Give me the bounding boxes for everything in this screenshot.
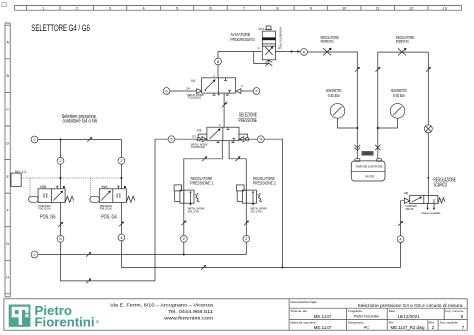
svg-text:H: H	[6, 276, 9, 280]
svg-text:3: 3	[109, 7, 111, 11]
svg-text:Selezione pressione G4 e G6 e: Selezione pressione G4 e G6 e circuito d…	[358, 303, 463, 308]
flow tick right column 2	[376, 67, 381, 72]
svg-text:F08.10 1M: F08.10 1M	[100, 208, 112, 211]
svg-text:F08.10 1M: F08.10 1M	[39, 208, 51, 211]
junction on avviatore output	[290, 50, 292, 52]
svg-text:6: 6	[209, 7, 211, 11]
wire: V6B supply column	[60, 140, 62, 189]
node 4 right of V3	[257, 136, 264, 143]
svg-text:G4 / G6: G4 / G6	[365, 174, 374, 178]
svg-text:contattore G4 o G6: contattore G4 o G6	[62, 119, 97, 125]
exhaust regulator valve VR	[401, 176, 445, 215]
wire net4: valve V3 right pilot to node 4 and right riser	[239, 139, 283, 267]
wire: scarico regulator column	[400, 204, 402, 268]
node 4 below VR	[397, 236, 404, 243]
frame corner stub	[2, 3, 7, 7]
junction regulator R1 on net2 bus	[183, 253, 185, 255]
Pietro Fiorentini logo mark	[9, 305, 31, 327]
wire: valve V4 outlet down to valve V3	[223, 93, 225, 127]
title block outer frame	[4, 299, 467, 330]
flow tick on R2 feed	[236, 156, 241, 161]
node 6 left of V4	[163, 88, 170, 95]
wire: gauge M1 stub	[338, 118, 358, 128]
svg-text:POS. G4: POS. G4	[101, 214, 117, 220]
node 2 below R2	[243, 235, 250, 242]
svg-text:C: C	[6, 108, 9, 112]
junction gauge M1	[356, 127, 358, 129]
svg-text:G: G	[6, 242, 9, 246]
wire net8: avviatore port1 to node 8 to valve V4 top	[218, 52, 261, 78]
pressure regulator R1	[174, 185, 205, 214]
flow regulator FR1	[323, 48, 331, 56]
svg-text:TC2020/100: TC2020/100	[187, 97, 201, 100]
svg-text:D: D	[6, 141, 9, 145]
svg-text:ME.1147_R2.dwg: ME.1147_R2.dwg	[391, 325, 425, 330]
node 5 left of V3	[168, 136, 175, 143]
svg-text:SOL 2 PN: SOL 2 PN	[250, 211, 261, 214]
wire: V6A outlet to node 4 and bottom run	[121, 203, 400, 268]
svg-text:5: 5	[176, 7, 178, 11]
svg-text:AVVIAMENTO PROG.: AVVIAMENTO PROG.	[279, 27, 282, 50]
wire net2 top: node 2 to selector valves	[38, 139, 122, 141]
svg-text:Progettista: Progettista	[348, 309, 362, 313]
wire: V6A supply column	[120, 140, 122, 189]
node 2 top left	[31, 136, 38, 143]
svg-text:ME.1147: ME.1147	[314, 314, 332, 319]
node 2 above V6B	[57, 157, 64, 164]
svg-text:Fog. seguente: Fog. seguente	[440, 321, 458, 325]
svg-text:6: 6	[461, 314, 464, 320]
wire: valve V3 left outlet to regulator R1	[184, 141, 223, 255]
svg-text:0-25 Bar: 0-25 Bar	[393, 93, 405, 98]
svg-text:18/12/2021: 18/12/2021	[397, 314, 420, 319]
junction pilot line at V6B column	[59, 177, 61, 179]
svg-text:V4: V4	[191, 79, 195, 83]
svg-text:PRESSIONE 1: PRESSIONE 1	[190, 181, 213, 186]
svg-text:Via E. Fermi, 8/10 – Arcugnano: Via E. Fermi, 8/10 – Arcugnano – Vicenza	[110, 302, 214, 307]
gas meter under test	[351, 159, 385, 181]
svg-text:V6A: V6A	[101, 185, 108, 189]
svg-text:Rev.: Rev.	[429, 321, 435, 325]
svg-text:1: 1	[42, 7, 44, 11]
svg-text:Matricola macchina: Matricola macchina	[291, 321, 316, 325]
svg-text:Scarico regolabile: Scarico regolabile	[421, 212, 441, 215]
arrowhead into node 6	[297, 50, 300, 52]
node 6 top right	[301, 49, 308, 56]
svg-text:POS. G6: POS. G6	[40, 214, 56, 220]
node 7 right of V4	[253, 88, 260, 95]
svg-text:Disegnatore: Disegnatore	[348, 321, 364, 325]
flow tick on net5 bottom run	[86, 278, 91, 283]
svg-text:Fog. corrente: Fog. corrente	[445, 309, 463, 313]
pressure gauge M1	[330, 104, 345, 119]
svg-text:V6B: V6B	[40, 185, 47, 189]
flow tick below scarico valve	[398, 221, 403, 226]
valve V6B	[29, 185, 74, 221]
left ruler band	[5, 23, 10, 297]
meter inlet arrow	[354, 145, 360, 151]
svg-text:PORTATA: PORTATA	[321, 39, 334, 44]
pilot control dashed line from selector Sel.1-2	[21, 178, 121, 196]
wire net5 riser: left column x=154.5	[154, 139, 156, 281]
svg-text:10: 10	[342, 7, 346, 11]
svg-text:Denominazione foglio.: Denominazione foglio.	[291, 300, 318, 304]
node 8 above V4	[215, 58, 222, 65]
wire: V6B outlet to node 5 and bottom run	[61, 203, 156, 281]
svg-text:PRESSIONE: PRESSIONE	[239, 118, 258, 124]
node 2 below R1	[180, 235, 187, 242]
junction net4 riser on bottom bus	[281, 266, 283, 268]
svg-text:0-25 Bar: 0-25 Bar	[328, 93, 340, 98]
pressure gauge M2	[390, 104, 405, 119]
wire net2 bus: bottom distribution	[38, 254, 246, 256]
flow tick right column 1	[355, 67, 360, 72]
petcock valve on right column	[424, 125, 432, 133]
svg-text:13: 13	[442, 7, 446, 11]
wire: avviatore port2 to node 6	[276, 51, 300, 53]
flow tick on net4 bottom bus	[201, 265, 206, 270]
node 4 below V6A	[118, 234, 125, 241]
svg-text:7: 7	[243, 7, 245, 11]
progressive starter VP1	[258, 26, 282, 60]
svg-text:638-35: 638-35	[406, 208, 414, 211]
top ruler band	[15, 6, 462, 11]
VP1 bypass check valve	[254, 52, 273, 66]
wire net5: pilot line node 5 to valve V3 left pilot	[155, 138, 207, 140]
wire: flow regulator 2 branch top	[378, 52, 429, 195]
wire net6: node 6 to flow regulator 1 and down right column	[307, 52, 357, 144]
junction V6B column on net2	[59, 138, 61, 140]
svg-text:SOL 2 PN: SOL 2 PN	[188, 211, 199, 214]
flow tick below regulator R1	[182, 221, 187, 226]
valve V6A	[90, 185, 135, 221]
flow tick on net2 top	[87, 137, 92, 142]
valve V3	[191, 123, 249, 149]
svg-text:PROGRESSIVO: PROGRESSIVO	[230, 37, 255, 43]
svg-text:9: 9	[310, 7, 312, 11]
wire: meter inlet drop	[356, 144, 358, 158]
svg-text:Schema. tab.: Schema. tab.	[291, 309, 308, 313]
svg-text:2: 2	[76, 7, 78, 11]
pressure regulator R2	[237, 185, 268, 214]
flow tick on net2 bus	[86, 252, 91, 257]
svg-text:VR: VR	[404, 192, 409, 196]
svg-text:CONT.: CONT.	[364, 152, 372, 155]
flow tick on V4-V3 link	[222, 103, 227, 108]
svg-text:VP1: VP1	[258, 27, 264, 31]
svg-text:V3: V3	[197, 128, 201, 132]
selector switch Sel.1-2	[11, 170, 26, 187]
svg-text:File: File	[389, 321, 394, 325]
flow regulator FR2	[398, 48, 406, 56]
svg-text:Fiorentini: Fiorentini	[35, 316, 95, 330]
junction gauge M2	[377, 127, 379, 129]
svg-text:P: P	[241, 84, 243, 88]
svg-text:TAMPONE CONTATORE: TAMPONE CONTATORE	[356, 164, 383, 168]
svg-text:8: 8	[276, 7, 278, 11]
node 2 above V6A	[118, 157, 125, 164]
node 5 below V6B	[57, 235, 64, 242]
svg-text:SELETTORE G4 / G6: SELETTORE G4 / G6	[31, 22, 90, 33]
svg-text:11: 11	[376, 7, 380, 11]
svg-text:4: 4	[143, 7, 145, 11]
svg-text:12: 12	[409, 7, 413, 11]
flow tick on R1 feed	[202, 156, 207, 161]
flow tick below regulator R2	[244, 221, 249, 226]
wire: valve V3 right outlet to regulator R2	[229, 141, 246, 255]
svg-text:D4: D4	[186, 87, 190, 91]
valve V4	[186, 73, 243, 99]
svg-text:Pietro Fiorentini: Pietro Fiorentini	[354, 314, 379, 318]
junction pilot line at V6A column	[120, 177, 122, 179]
flow tick right column 3	[426, 67, 431, 72]
wire net6: node 6 to valve V4 left pilot	[170, 90, 197, 92]
svg-text:ME.1147: ME.1147	[314, 325, 332, 330]
svg-text:PORTATA: PORTATA	[396, 39, 409, 44]
svg-text:D3: D3	[192, 135, 196, 139]
wire net7: valve V4 right pilot to node 7	[241, 90, 253, 92]
flow tick below V6B	[58, 222, 63, 227]
svg-text:TC2020/100: TC2020/100	[191, 146, 205, 149]
wire: meter outlet drop	[377, 144, 379, 158]
svg-text:SCARICO: SCARICO	[434, 183, 448, 189]
meter outlet cross	[375, 145, 380, 150]
svg-text:7: 7	[462, 325, 465, 331]
flow tick below V6A	[119, 222, 124, 227]
node 2 bottom left	[31, 251, 38, 258]
svg-text:PRESSIONE 2: PRESSIONE 2	[253, 181, 276, 186]
svg-text:www.fiorentini.com: www.fiorentini.com	[164, 315, 213, 320]
svg-text:AC: AC	[364, 325, 370, 330]
wire: gauge M2 stub	[378, 118, 398, 128]
svg-text:Data: Data	[389, 309, 395, 313]
svg-text:Tel. 0444.968.511: Tel. 0444.968.511	[168, 309, 214, 314]
meter tag	[362, 151, 374, 155]
